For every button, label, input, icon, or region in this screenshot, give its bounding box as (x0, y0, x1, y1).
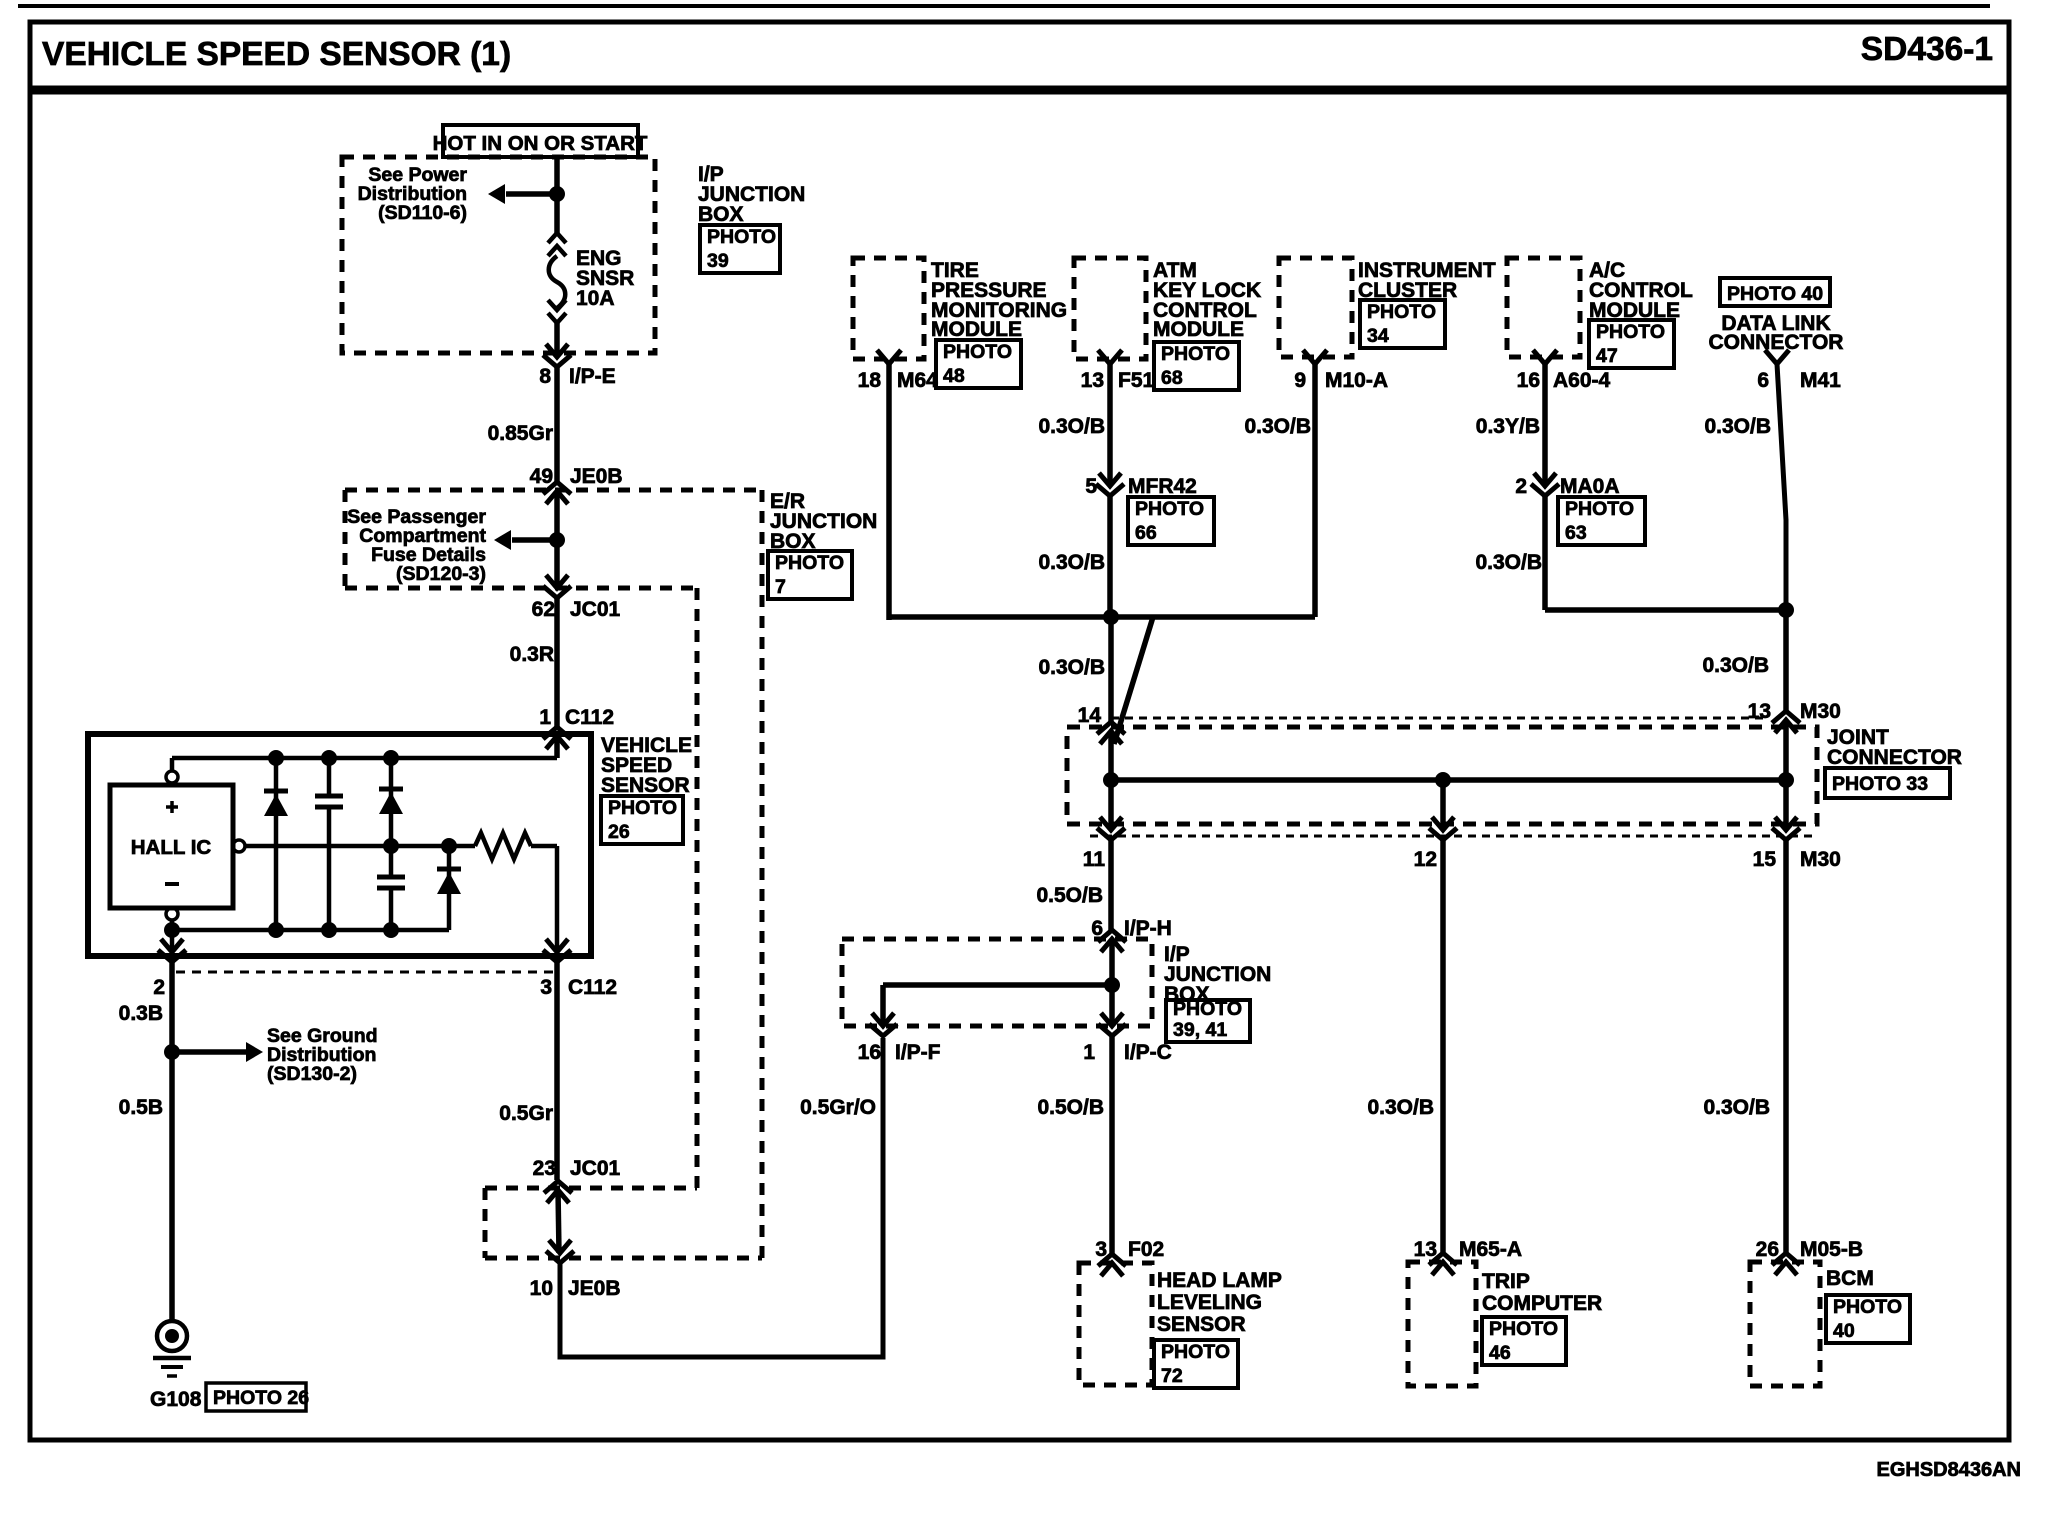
wire 0.5B (169, 1052, 175, 1320)
connector 2 MA0A (1531, 473, 1559, 496)
svg-text:MA0A: MA0A (1560, 475, 1620, 498)
svg-text:M05-B: M05-B (1800, 1238, 1863, 1261)
label box PHOTO 66 (1128, 497, 1214, 545)
svg-text:5: 5 (1085, 475, 1097, 498)
wire I/P-H tail to node (1109, 939, 1115, 985)
diode D1 column (274, 758, 279, 930)
node dot joint 15 (1778, 772, 1794, 788)
A/C control module dashed box (1507, 258, 1580, 357)
I/P junction box lower dashed outline (842, 939, 1152, 1026)
node dot bus C1 (321, 922, 337, 938)
connector 10 JE0B (546, 1240, 574, 1263)
svg-text:PHOTO: PHOTO (1161, 343, 1230, 365)
svg-text:2: 2 (1515, 475, 1527, 498)
svg-text:15: 15 (1753, 848, 1777, 871)
svg-text:0.5O/B: 0.5O/B (1037, 1096, 1104, 1119)
svg-text:SENSOR: SENSOR (1157, 1313, 1246, 1336)
wire VSS top bus (172, 756, 557, 761)
svg-text:6: 6 (1757, 369, 1769, 392)
svg-text:0.3O/B: 0.3O/B (1702, 654, 1769, 677)
node dot joint 12 (1435, 772, 1451, 788)
svg-text:BCM: BCM (1826, 1267, 1874, 1290)
svg-text:HALL IC: HALL IC (131, 836, 212, 859)
wire 0.3B (169, 962, 175, 1052)
svg-text:A60-4: A60-4 (1553, 369, 1611, 392)
node junction dot fuse details tap (549, 532, 565, 548)
I/P junction box (top) dashed outline (342, 157, 655, 353)
node junction dot ground tap (164, 1044, 180, 1060)
node dot bus D2 (383, 922, 399, 938)
trip computer dashed box (1408, 1262, 1476, 1386)
wire 0.3O/B F51 (1107, 364, 1113, 486)
wire 0.3O/B pin12 to M65-A (1440, 840, 1446, 1252)
head lamp leveling sensor dashed box (1079, 1263, 1152, 1385)
svg-text:PHOTO: PHOTO (775, 552, 844, 574)
wire VSS middle bus (245, 844, 475, 849)
wire M64 drop (886, 364, 892, 620)
svg-text:M64: M64 (897, 369, 938, 392)
svg-text:MODULE: MODULE (931, 318, 1022, 341)
svg-text:2: 2 (153, 976, 165, 999)
wire VSS bottom bus (172, 928, 449, 933)
connector 8 I/P-E (543, 344, 571, 367)
terminal circle Hall IC right (233, 840, 245, 852)
svg-text:0.5O/B: 0.5O/B (1036, 884, 1103, 907)
svg-text:C112: C112 (565, 706, 614, 729)
svg-text:M65-A: M65-A (1459, 1238, 1522, 1261)
wire fuse to connector 8 I/P-E (554, 323, 560, 357)
svg-text:8: 8 (539, 365, 551, 388)
svg-text:PHOTO: PHOTO (1565, 498, 1634, 520)
svg-text:I/P-F: I/P-F (895, 1041, 941, 1064)
wire 0.3O/B M41 (1777, 364, 1786, 610)
connector 2 C112 (170, 930, 175, 952)
svg-text:3: 3 (540, 976, 552, 999)
svg-text:11: 11 (1083, 848, 1106, 871)
svg-text:JC01: JC01 (570, 598, 621, 621)
svg-text:0.3O/B: 0.3O/B (1244, 415, 1311, 438)
svg-text:68: 68 (1161, 367, 1183, 389)
svg-text:0.3Y/B: 0.3Y/B (1476, 415, 1540, 438)
svg-text:46: 46 (1489, 1342, 1511, 1364)
connector 12 (1429, 817, 1457, 840)
svg-text:0.5B: 0.5B (119, 1096, 163, 1119)
svg-text:PHOTO: PHOTO (707, 226, 776, 248)
wire 0.3R (554, 598, 560, 727)
svg-text:47: 47 (1596, 345, 1618, 367)
svg-text:LEVELING: LEVELING (1157, 1291, 1262, 1314)
wire to pin 11 (1108, 780, 1114, 830)
joint connector dashed box (1067, 727, 1817, 824)
svg-text:0.3O/B: 0.3O/B (1704, 415, 1771, 438)
resistor R1 (475, 833, 531, 859)
svg-text:PHOTO 26: PHOTO 26 (213, 1387, 309, 1409)
wire node to I/P-C (1109, 985, 1115, 1026)
label box PHOTO 72 (1154, 1340, 1238, 1388)
connector 26 M05-B (1772, 1253, 1800, 1275)
wire inside JC01 pocket (558, 1190, 559, 1253)
svg-text:40: 40 (1833, 1320, 1855, 1342)
wire Hall IC bottom to bus (170, 920, 175, 930)
wire arrow to See Passenger Compartment (512, 537, 557, 543)
svg-text:0.3R: 0.3R (510, 643, 554, 666)
node dot joint 11 (1103, 772, 1119, 788)
svg-text:0.85Gr: 0.85Gr (488, 422, 553, 445)
wire 0.3Y/B (1542, 364, 1548, 486)
svg-text:I/P-E: I/P-E (569, 365, 616, 388)
connector 1 C112 (543, 727, 571, 749)
svg-text:PHOTO: PHOTO (608, 797, 677, 819)
joint connector inner dashed line bottom (1090, 835, 1815, 838)
svg-text:18: 18 (858, 369, 882, 392)
svg-text:0.5Gr: 0.5Gr (499, 1102, 553, 1125)
svg-text:PHOTO: PHOTO (1173, 998, 1242, 1020)
connector 9 M10-A fork (1303, 350, 1327, 364)
svg-text:C112: C112 (568, 976, 617, 999)
connector 11 (1097, 817, 1125, 840)
svg-text:0.3O/B: 0.3O/B (1038, 551, 1105, 574)
svg-text:9: 9 (1294, 369, 1306, 392)
svg-text:JE0B: JE0B (568, 1277, 621, 1300)
diode D3 column (447, 846, 452, 930)
svg-text:JE0B: JE0B (570, 465, 623, 488)
vehicle speed sensor box (88, 734, 591, 956)
connector 15 M30 (1772, 817, 1800, 840)
svg-text:16: 16 (1517, 369, 1540, 392)
svg-text:F51: F51 (1118, 369, 1155, 392)
connector 16 I/P-F (869, 1013, 897, 1036)
svg-text:M30: M30 (1800, 700, 1841, 723)
svg-text:66: 66 (1135, 522, 1157, 544)
svg-text:72: 72 (1161, 1365, 1183, 1387)
svg-text:23: 23 (533, 1157, 556, 1180)
svg-text:0.3B: 0.3B (119, 1002, 163, 1025)
node dot D2 middle (383, 838, 399, 854)
svg-text:PHOTO 33: PHOTO 33 (1832, 773, 1928, 795)
title separator line (28, 86, 2011, 95)
node dot D1 top (268, 750, 284, 766)
svg-text:M10-A: M10-A (1325, 369, 1388, 392)
connector 18 M64 fork (877, 350, 901, 364)
ground G108 (157, 1321, 187, 1351)
svg-text:CONNECTOR: CONNECTOR (1827, 746, 1962, 769)
connector 49 JE0B (543, 482, 571, 504)
svg-text:3: 3 (1095, 1238, 1107, 1261)
svg-text:48: 48 (943, 365, 965, 387)
wire to pin 12 (1440, 780, 1446, 830)
wire pin 13 tail (1783, 720, 1789, 780)
wire junction bus M64-F51-M10A (889, 614, 1315, 620)
node dot D2 top (383, 750, 399, 766)
svg-text:M30: M30 (1800, 848, 1841, 871)
node junction dot A60/M41 (1778, 602, 1794, 618)
label box PHOTO 47 (1589, 320, 1674, 368)
ATM key lock control module dashed box (1074, 258, 1146, 359)
svg-text:10A: 10A (576, 287, 615, 310)
svg-text:M41: M41 (1800, 369, 1841, 392)
svg-text:0.5Gr/O: 0.5Gr/O (800, 1096, 876, 1119)
svg-text:CONNECTOR: CONNECTOR (1709, 331, 1844, 354)
wire inside E/R box (554, 491, 560, 588)
svg-text:G108: G108 (150, 1388, 202, 1411)
svg-text:1: 1 (1083, 1041, 1095, 1064)
svg-text:(SD120-3): (SD120-3) (396, 563, 486, 585)
svg-text:EGHSD8436AN: EGHSD8436AN (1876, 1459, 2021, 1481)
svg-text:62: 62 (532, 598, 555, 621)
connector 3 F02 (1098, 1254, 1126, 1276)
svg-text:49: 49 (530, 465, 553, 488)
wire diagonal M10-A branch to pin 14 (1114, 617, 1153, 744)
svg-text:39, 41: 39, 41 (1173, 1019, 1227, 1041)
svg-text:MFR42: MFR42 (1128, 475, 1197, 498)
svg-text:I/P-C: I/P-C (1124, 1041, 1172, 1064)
label box PHOTO 39, 41 (1166, 1000, 1250, 1042)
svg-text:26: 26 (1756, 1238, 1779, 1261)
label box PHOTO 68 (1154, 342, 1239, 390)
connector 13 M65-A (1429, 1253, 1457, 1275)
svg-text:MODULE: MODULE (1153, 318, 1244, 341)
svg-text:7: 7 (775, 576, 786, 598)
wire 0.3O/B pin15 to M05-B (1783, 840, 1789, 1252)
wire node to I/P-F (883, 982, 1112, 988)
label box PHOTO 26 (601, 796, 683, 844)
connector 3 C112 (543, 939, 571, 962)
wire arrow to See Ground Distribution (172, 1049, 247, 1055)
wire 0.3O/B to pin 14 (1108, 617, 1114, 722)
svg-text:0.3O/B: 0.3O/B (1475, 551, 1542, 574)
dashed connector row C112 (176, 971, 556, 974)
svg-text:34: 34 (1367, 325, 1389, 347)
wire 0.3O/B below MA0A (1542, 496, 1548, 610)
svg-text:39: 39 (707, 250, 729, 272)
node dot bus D1 (268, 922, 284, 938)
label box PHOTO 40 data link (1720, 278, 1830, 306)
node dot D3 middle (441, 838, 457, 854)
connector 5 MFR42 (1096, 473, 1124, 496)
capacitor C1 column (327, 758, 332, 930)
svg-text:PHOTO: PHOTO (1161, 1341, 1230, 1363)
wire pin1 tail to top bus (554, 736, 560, 758)
label box PHOTO 39 (700, 225, 780, 273)
fuse ENG SNSR 10A (548, 233, 566, 323)
label box PHOTO 40 BCM (1826, 1295, 1910, 1343)
svg-text:(SD130-2): (SD130-2) (267, 1063, 357, 1085)
connector 1 I/P-C (1098, 1013, 1126, 1036)
label box PHOTO 26 ground (206, 1383, 306, 1411)
joint connector inner dashed line top (1111, 717, 1768, 720)
svg-text:SENSOR: SENSOR (601, 774, 690, 797)
page top scan line (18, 4, 1990, 8)
node dot bus pin2 (164, 922, 180, 938)
wire from HOT bus down to junction (554, 157, 560, 233)
diode D2 column (389, 758, 394, 930)
svg-text:63: 63 (1565, 522, 1587, 544)
svg-text:13: 13 (1748, 700, 1771, 723)
svg-text:COMPUTER: COMPUTER (1482, 1292, 1602, 1315)
svg-text:PHOTO: PHOTO (1367, 301, 1436, 323)
label box PHOTO 46 (1482, 1317, 1566, 1365)
svg-text:HOT IN ON OR START: HOT IN ON OR START (433, 132, 648, 155)
svg-text:HEAD LAMP: HEAD LAMP (1157, 1269, 1282, 1292)
node junction dot at power tap (549, 186, 565, 202)
connector 62 JC01 (543, 575, 571, 598)
svg-text:0.3O/B: 0.3O/B (1038, 415, 1105, 438)
wire 0.5O/B to F02 (1109, 1036, 1115, 1254)
plus mark (166, 805, 178, 809)
svg-text:16: 16 (858, 1041, 881, 1064)
wire pin 14 tail (1108, 731, 1114, 780)
wire resistor to output column (531, 844, 557, 849)
svg-text:13: 13 (1414, 1238, 1437, 1261)
svg-text:F02: F02 (1128, 1238, 1164, 1261)
svg-text:(SD110-6): (SD110-6) (378, 202, 467, 224)
wire to pin 15 (1783, 780, 1789, 830)
svg-text:12: 12 (1414, 848, 1437, 871)
Hall IC box (110, 785, 233, 908)
svg-text:VEHICLE SPEED SENSOR (1): VEHICLE SPEED SENSOR (1) (42, 36, 511, 73)
wire JE0B to I/P-F riser (560, 1038, 883, 1357)
connector 6 I/P-H (1098, 930, 1126, 952)
svg-text:14: 14 (1078, 704, 1102, 727)
svg-text:10: 10 (530, 1277, 553, 1300)
tire pressure monitoring module dashed box (853, 258, 924, 359)
wire arrow to See Power Distribution (506, 191, 557, 197)
connector 13 M30 (1772, 711, 1800, 733)
svg-text:PHOTO 40: PHOTO 40 (1727, 283, 1823, 305)
svg-text:PHOTO: PHOTO (1833, 1296, 1902, 1318)
label box PHOTO 33 (1825, 768, 1950, 798)
connector 14 (1097, 722, 1125, 744)
minus mark (165, 882, 179, 886)
connector 23 JC01 (544, 1181, 572, 1203)
instrument cluster dashed box (1279, 258, 1352, 357)
wire MA0A elbow to M41 column (1545, 607, 1786, 613)
label box PHOTO 7 (768, 551, 852, 599)
svg-text:JC01: JC01 (570, 1157, 621, 1180)
wire 0.3O/B M10-A drop (1312, 364, 1318, 617)
svg-text:0.3O/B: 0.3O/B (1703, 1096, 1770, 1119)
wire joint connector internal bus (1111, 777, 1786, 783)
E/R junction box dashed outline with JC01 pocket (345, 488, 762, 493)
svg-text:0.3O/B: 0.3O/B (1038, 656, 1105, 679)
connector 13 F51 fork (1098, 350, 1122, 364)
svg-text:BOX: BOX (698, 203, 744, 226)
node dot C1 top (321, 750, 337, 766)
svg-text:TRIP: TRIP (1482, 1270, 1530, 1293)
BCM dashed box (1750, 1262, 1820, 1386)
svg-text:PHOTO: PHOTO (1135, 498, 1204, 520)
wire 0.5O/B pin11 to I/P-H (1108, 840, 1114, 930)
wire 0.3O/B below MFR42 (1107, 496, 1113, 617)
terminal circle Hall IC top (166, 771, 178, 783)
wire 0.5Gr (554, 962, 560, 1180)
node junction dot inside I/P box (1104, 977, 1120, 993)
svg-text:PHOTO: PHOTO (943, 341, 1012, 363)
label box PHOTO 48 (936, 340, 1021, 388)
svg-text:PHOTO: PHOTO (1489, 1318, 1558, 1340)
svg-text:0.3O/B: 0.3O/B (1367, 1096, 1434, 1119)
svg-text:SD436-1: SD436-1 (1861, 31, 1993, 68)
svg-text:13: 13 (1081, 369, 1104, 392)
wire 0.85Gr (554, 367, 560, 482)
connector 6 M41 fork (1765, 350, 1789, 364)
label box PHOTO 34 (1360, 300, 1445, 348)
connector 16 A60-4 fork (1533, 350, 1557, 364)
terminal circle Hall IC bottom (166, 908, 178, 920)
svg-text:PHOTO: PHOTO (1596, 321, 1665, 343)
label box PHOTO 63 (1558, 497, 1645, 545)
wire 0.3O/B to 13 M30 (1783, 610, 1789, 711)
capacitor C2 on D2 column (377, 877, 405, 888)
node junction dot F51/M64 (1103, 609, 1119, 625)
svg-text:26: 26 (608, 821, 630, 843)
label box HOT IN ON OR START (443, 125, 638, 157)
svg-text:1: 1 (539, 706, 551, 729)
